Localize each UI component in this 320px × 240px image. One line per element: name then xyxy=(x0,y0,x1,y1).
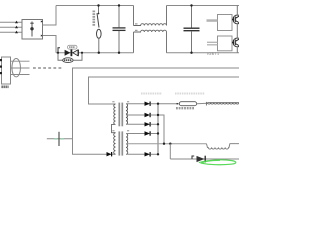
transformer T1 secondary winding xyxy=(126,104,128,125)
cathode bus vertical xyxy=(157,104,159,155)
connector CN1 label xyxy=(2,86,9,89)
arrow input L2 xyxy=(15,26,18,29)
wire three-phase input line L2 xyxy=(0,26,22,28)
thermistor RT1 parallel loop right xyxy=(73,53,82,61)
capacitor C2 bottom lead xyxy=(191,31,193,53)
plus mark rectifier xyxy=(41,21,43,23)
wire three-phase input line L1 xyxy=(0,21,22,23)
thermistor RT1 parallel loop left xyxy=(58,53,63,61)
wire rectifier positive output to top bus xyxy=(43,6,57,26)
varistor RV1 right triangle xyxy=(73,50,78,56)
capacitor C2 top lead xyxy=(191,6,193,28)
diode D3 xyxy=(145,122,151,126)
diode D6 xyxy=(145,152,151,156)
gate stub lower gray xyxy=(207,41,218,43)
choke winding labels xyxy=(135,23,138,24)
output inductor L3 xyxy=(207,144,240,149)
connector CN1 pins xyxy=(0,59,2,61)
capacitor C3 stub wire xyxy=(47,138,73,140)
transformer T2 secondary winding xyxy=(126,134,128,155)
freewheel diode D7 xyxy=(197,156,205,162)
transformer T1 primary winding xyxy=(114,104,116,125)
svg-text:IGBT1: IGBT1 xyxy=(207,52,220,56)
capacitor C3 plate bar xyxy=(58,132,60,146)
capacitor C3 green marks xyxy=(54,138,57,140)
secondary tap row 4 wire xyxy=(126,133,145,135)
wires through ferrite ring xyxy=(11,60,30,62)
wire drive bus upper xyxy=(73,68,240,154)
IGBT chain verticals xyxy=(236,6,238,53)
secondary tap row 1 wire xyxy=(126,103,145,105)
IGBT module upper box xyxy=(218,15,233,31)
transformer T2 primary winding xyxy=(114,133,116,154)
varistor RV1 center bar xyxy=(71,49,73,56)
fuse F1 oval xyxy=(97,29,102,38)
arrow input L1 xyxy=(15,21,18,24)
wire top bus right section xyxy=(167,5,240,7)
choke L1 top winding xyxy=(134,24,167,26)
minus mark rectifier xyxy=(41,35,43,37)
wire fuse to rail xyxy=(98,38,100,52)
secondary tap row 3 wire xyxy=(126,123,145,125)
wire bottom rail right section xyxy=(167,52,240,54)
diode D5 on return wire xyxy=(107,152,112,156)
capacitor C1 bottom lead xyxy=(118,31,120,53)
transformer T1 core xyxy=(118,103,120,127)
capacitor C2 plates xyxy=(184,27,200,29)
secondary tap row 2 wire xyxy=(126,114,145,116)
common mode choke L1 left verticals xyxy=(133,6,135,53)
junction dots top bus xyxy=(97,4,99,6)
common mode choke L1 right verticals xyxy=(166,6,168,53)
IGBT Q2 symbol xyxy=(232,39,239,45)
thermistor RT1 oval xyxy=(63,58,73,63)
arrow input L3 xyxy=(15,31,18,34)
shunt label xyxy=(176,107,194,109)
label box R1 xyxy=(68,45,78,49)
bridge rectifier BR1 box xyxy=(22,20,43,40)
freewheel branch vertical xyxy=(169,144,171,159)
wire drive bus lower / primary loop xyxy=(89,77,240,104)
diode D1 xyxy=(145,102,151,106)
connector CN1 box xyxy=(2,57,11,84)
center tap output wire xyxy=(126,143,207,145)
shunt resistor R2 pill xyxy=(179,102,196,106)
T1 T2 primary interconnect xyxy=(112,125,116,133)
dashed control cable xyxy=(33,67,63,69)
diode D2 xyxy=(145,113,151,117)
faint watermark text row xyxy=(141,93,162,95)
wire bottom rail left section xyxy=(56,52,134,54)
diode D4 xyxy=(145,131,151,135)
wire top bus left section xyxy=(56,5,134,7)
label switch vertical text xyxy=(93,11,96,27)
winding polarity marks xyxy=(112,101,114,102)
green highlight scribble xyxy=(199,160,236,165)
freewheel diode line xyxy=(170,158,239,160)
IGBT Q2 circle xyxy=(233,38,242,47)
diode inside rectifier xyxy=(31,22,33,37)
switch S1 branch wire xyxy=(98,6,100,14)
bus junction dots xyxy=(157,103,159,105)
capacitor C1 top lead xyxy=(118,6,120,28)
IGBT module lower box xyxy=(218,36,233,51)
switch S1 blade xyxy=(97,13,99,27)
wire three-phase input line L3 xyxy=(0,31,22,33)
transformer T2 core xyxy=(118,131,120,155)
row 1 wire to output xyxy=(151,103,181,105)
ferrite ring FB1 xyxy=(12,58,21,76)
stub mark left of varistor xyxy=(58,48,60,53)
gate stub upper gray xyxy=(207,19,218,22)
wire rectifier negative output to bottom rail xyxy=(43,36,57,53)
choke L1 bottom winding xyxy=(134,30,167,32)
junction dots bottom rail xyxy=(98,52,100,54)
secondary tap row 5 wire xyxy=(126,153,145,155)
varistor RV1 bowtie left triangle xyxy=(65,50,71,56)
IGBT Q1 symbol xyxy=(232,16,239,22)
IGBT Q1 circle xyxy=(233,15,242,24)
stub mark before freewheel diode xyxy=(192,156,194,159)
output inductor L2 top xyxy=(197,102,208,105)
capacitor C1 plates xyxy=(113,27,126,29)
